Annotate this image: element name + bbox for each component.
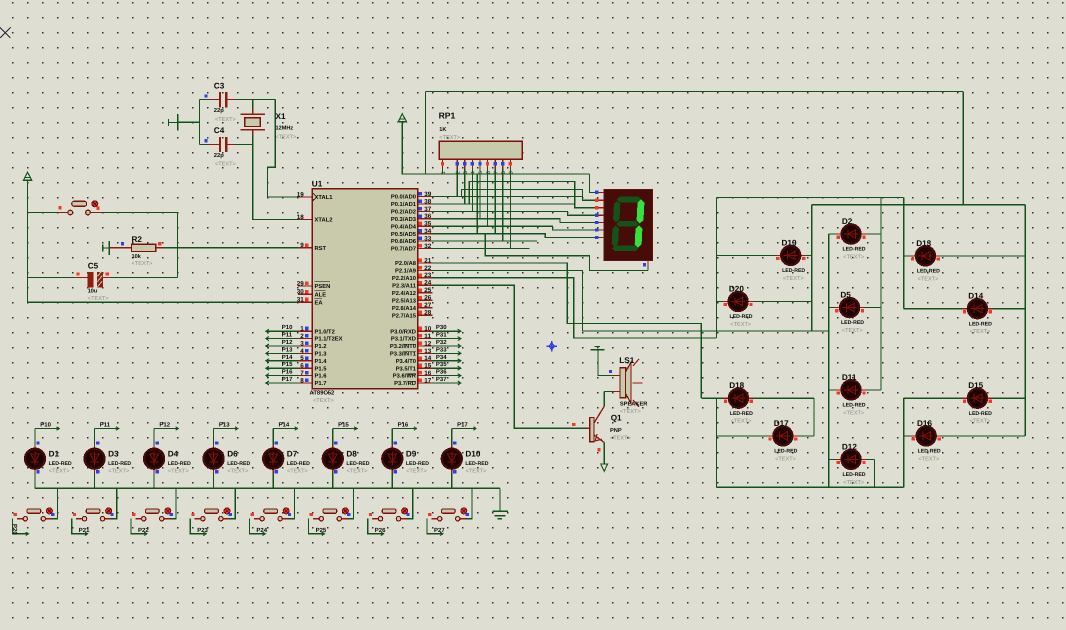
U1 left pins bbox=[298, 197, 312, 383]
wire net P15 bbox=[266, 367, 298, 369]
svg-text:LED-RED: LED-RED bbox=[843, 472, 866, 478]
wire net P12 stub bbox=[154, 428, 178, 430]
ground (crystal area) bbox=[168, 119, 170, 126]
wire D5 row bbox=[829, 307, 881, 309]
svg-text:8: 8 bbox=[300, 377, 304, 384]
wire matrix left rail upper bbox=[716, 198, 718, 339]
svg-text:<TEXT>: <TEXT> bbox=[168, 468, 189, 474]
capacitor C4 bbox=[208, 137, 237, 152]
wire RP1 pin4 drop bbox=[471, 169, 473, 212]
svg-text:3: 3 bbox=[300, 340, 304, 347]
wire net P11 bbox=[266, 338, 298, 340]
svg-text:16: 16 bbox=[424, 370, 432, 377]
svg-text:33: 33 bbox=[424, 236, 432, 243]
wire D2 row bbox=[829, 233, 881, 235]
wire D15 row bbox=[904, 397, 1025, 399]
svg-text:P2.0/A8: P2.0/A8 bbox=[395, 260, 417, 267]
svg-text:P27: P27 bbox=[434, 527, 445, 534]
wire P0.4 to segment F bbox=[433, 226, 599, 230]
svg-text:P3.4/T0: P3.4/T0 bbox=[396, 358, 416, 365]
wire net P13 stub bbox=[214, 428, 238, 430]
wire D18 row bbox=[701, 397, 814, 399]
wire D12 row bbox=[829, 458, 875, 460]
svg-text:D13: D13 bbox=[916, 239, 931, 248]
svg-text:<TEXT>: <TEXT> bbox=[775, 456, 796, 462]
wire D13 row bbox=[904, 255, 1025, 257]
svg-text:AT89C52: AT89C52 bbox=[310, 390, 335, 397]
LED D12 bbox=[836, 450, 866, 469]
svg-text:XTAL2: XTAL2 bbox=[315, 217, 333, 224]
svg-text:37: 37 bbox=[424, 206, 432, 213]
wire button P27 to net bbox=[427, 519, 443, 534]
wire D1 bottom bbox=[34, 473, 36, 488]
wire button P24 to net bbox=[249, 519, 265, 534]
wire VCC to reset button bbox=[28, 212, 58, 214]
LED D18 bbox=[723, 389, 753, 408]
svg-text:D18: D18 bbox=[729, 381, 744, 390]
push button P24 bbox=[254, 508, 289, 521]
svg-text:D7: D7 bbox=[287, 450, 298, 459]
wire button P23 to net bbox=[190, 519, 206, 534]
wire top VCC rail bbox=[426, 91, 964, 93]
LED D2 bbox=[836, 225, 866, 244]
7seg pins bbox=[599, 192, 648, 266]
svg-text:36: 36 bbox=[424, 213, 432, 220]
wire D11 row bbox=[829, 389, 881, 391]
svg-text:C4: C4 bbox=[214, 126, 225, 135]
LED D19 bbox=[776, 246, 806, 265]
wire D16 row bbox=[904, 435, 1025, 437]
wire matrix right rail bbox=[1024, 205, 1026, 436]
wire to ground bbox=[499, 488, 501, 511]
wire D3 top bbox=[94, 429, 96, 445]
svg-text:D8: D8 bbox=[346, 450, 357, 459]
svg-text:P0.3/AD3: P0.3/AD3 bbox=[391, 216, 417, 223]
svg-text:P2.1/A9: P2.1/A9 bbox=[395, 268, 417, 275]
wire net P37 bbox=[433, 382, 461, 384]
svg-text:P10: P10 bbox=[282, 324, 293, 331]
svg-text:P3.5/T1: P3.5/T1 bbox=[396, 365, 417, 372]
svg-text:P17: P17 bbox=[282, 376, 293, 383]
svg-text:D11: D11 bbox=[842, 373, 857, 382]
wire VCC riser to top rail bbox=[425, 92, 427, 174]
svg-text:14: 14 bbox=[424, 355, 432, 362]
svg-text:<TEXT>: <TEXT> bbox=[918, 456, 939, 462]
svg-text:1: 1 bbox=[300, 326, 304, 333]
LED D8 bbox=[323, 445, 343, 474]
svg-text:D10: D10 bbox=[465, 450, 480, 459]
svg-text:12MHz: 12MHz bbox=[276, 126, 294, 132]
sheet origin marker bbox=[0, 28, 11, 39]
wire net P34 bbox=[433, 360, 461, 362]
wire VCC rail to 7seg bbox=[402, 121, 589, 174]
op-amp U1 body (AT89C52 microcontroller) bbox=[312, 189, 417, 389]
wire P0.6 row bbox=[433, 240, 537, 242]
svg-text:25: 25 bbox=[424, 287, 432, 294]
svg-text:D16: D16 bbox=[917, 419, 932, 428]
wire D4 bottom bbox=[153, 473, 155, 488]
wire D20 row bbox=[717, 301, 812, 303]
wire C3 to XTAL1 net bbox=[236, 99, 275, 101]
svg-text:<TEXT>: <TEXT> bbox=[215, 117, 236, 123]
svg-text:<TEXT>: <TEXT> bbox=[620, 409, 641, 415]
svg-text:5: 5 bbox=[300, 355, 304, 362]
svg-text:22: 22 bbox=[424, 265, 432, 272]
wire button P26 to net bbox=[368, 519, 384, 534]
svg-text:D20: D20 bbox=[729, 285, 744, 294]
svg-text:P1.6: P1.6 bbox=[315, 373, 328, 380]
svg-text:31: 31 bbox=[297, 297, 305, 304]
wire speaker bottom bbox=[604, 391, 612, 393]
LED D13 bbox=[910, 246, 940, 265]
wire net P33 bbox=[433, 352, 461, 354]
wire matrix top rail bbox=[717, 197, 904, 199]
wire D6 bottom bbox=[213, 473, 215, 488]
svg-text:21: 21 bbox=[424, 257, 432, 264]
wire matrix right-mid riser bbox=[903, 198, 905, 309]
svg-text:LED-RED: LED-RED bbox=[774, 449, 797, 455]
svg-text:D15: D15 bbox=[968, 381, 983, 390]
wire button P22 to net bbox=[131, 519, 147, 534]
svg-text:23: 23 bbox=[424, 272, 432, 279]
svg-text:P1.4: P1.4 bbox=[315, 359, 328, 365]
svg-text:P36: P36 bbox=[436, 369, 447, 376]
svg-text:P1.1/T2EX: P1.1/T2EX bbox=[315, 336, 343, 343]
svg-text:P0.1/AD1: P0.1/AD1 bbox=[391, 201, 417, 208]
svg-text:P30: P30 bbox=[436, 324, 447, 331]
svg-text:P2.2/A10: P2.2/A10 bbox=[392, 275, 416, 282]
wire D9 top bbox=[391, 429, 393, 445]
svg-text:C5: C5 bbox=[88, 261, 99, 270]
svg-text:R2: R2 bbox=[132, 235, 143, 244]
push button P26 bbox=[372, 508, 407, 521]
svg-text:P3.1/TXD: P3.1/TXD bbox=[391, 336, 416, 343]
svg-text:P14: P14 bbox=[279, 421, 290, 428]
svg-text:13: 13 bbox=[424, 348, 432, 355]
svg-text:<TEXT>: <TEXT> bbox=[132, 261, 153, 267]
wire P0.0 row bbox=[433, 196, 583, 198]
svg-text:<TEXT>: <TEXT> bbox=[406, 468, 427, 474]
svg-text:P22: P22 bbox=[138, 527, 149, 534]
svg-text:LED-RED: LED-RED bbox=[841, 320, 864, 326]
svg-text:<TEXT>: <TEXT> bbox=[970, 329, 991, 335]
resistor pack RP1 bbox=[439, 141, 522, 159]
svg-text:P32: P32 bbox=[436, 339, 447, 346]
svg-text:LED-RED: LED-RED bbox=[969, 411, 992, 417]
wire net P17 bbox=[266, 382, 298, 384]
svg-text:<TEXT>: <TEXT> bbox=[227, 468, 248, 474]
wire crystal bottom stub bbox=[252, 136, 254, 145]
svg-text:<TEXT>: <TEXT> bbox=[313, 398, 334, 404]
svg-text:LED-RED: LED-RED bbox=[969, 321, 992, 327]
svg-text:XTAL1: XTAL1 bbox=[315, 195, 334, 201]
wire mid-col right rail bbox=[880, 198, 882, 390]
svg-text:LED-RED: LED-RED bbox=[168, 461, 191, 467]
svg-text:C3: C3 bbox=[214, 81, 225, 90]
wire matrix left rail lower bbox=[716, 398, 718, 487]
svg-text:<TEXT>: <TEXT> bbox=[439, 135, 460, 141]
svg-text:28: 28 bbox=[424, 310, 432, 317]
wire RP1 pin3 drop bbox=[464, 169, 466, 204]
push button (reset) bbox=[58, 201, 100, 215]
svg-text:P16: P16 bbox=[398, 421, 409, 428]
svg-text:P21: P21 bbox=[79, 527, 90, 534]
wire D1 top bbox=[34, 429, 36, 445]
wire XTAL1 bbox=[268, 100, 298, 197]
svg-text:P17: P17 bbox=[457, 421, 468, 428]
svg-text:PNP: PNP bbox=[610, 428, 622, 434]
svg-text:P15: P15 bbox=[282, 361, 293, 368]
wire P2.0 to D18 row bbox=[433, 263, 702, 398]
svg-text:P15: P15 bbox=[338, 421, 349, 428]
wire RP1 pin2 drop bbox=[456, 169, 458, 197]
LED D9 bbox=[382, 445, 402, 474]
wire C5 to RST node bbox=[112, 277, 178, 279]
svg-text:29: 29 bbox=[297, 280, 305, 287]
wire VCC rail to C5 bbox=[28, 277, 75, 279]
wire net P11 stub bbox=[95, 428, 119, 430]
svg-text:D5: D5 bbox=[840, 291, 851, 300]
svg-text:P1.2: P1.2 bbox=[315, 343, 327, 350]
wire D8 top bbox=[332, 429, 334, 445]
wire P0.0 to segment B bbox=[462, 190, 599, 201]
svg-text:LED-RED: LED-RED bbox=[465, 461, 488, 467]
wire matrix bottom rail bbox=[717, 486, 904, 488]
wire net P14 stub bbox=[273, 428, 297, 430]
svg-text:D19: D19 bbox=[782, 238, 797, 247]
svg-text:<TEXT>: <TEXT> bbox=[783, 276, 804, 282]
wire VCC drop right bbox=[962, 92, 964, 205]
svg-text:<TEXT>: <TEXT> bbox=[215, 162, 236, 168]
wire colB rail upper bbox=[811, 205, 813, 331]
wire RP1 pin8 drop bbox=[502, 169, 504, 241]
svg-text:6: 6 bbox=[300, 363, 304, 370]
wire P0.7 row bbox=[433, 248, 530, 250]
svg-text:P3.0/RXD: P3.0/RXD bbox=[390, 328, 416, 335]
wire RP1 pin5 drop bbox=[479, 169, 481, 219]
wire to C3 left bbox=[200, 99, 208, 101]
wire P0.1 row bbox=[433, 203, 575, 205]
svg-text:PSEN: PSEN bbox=[315, 283, 331, 290]
svg-text:P25: P25 bbox=[316, 527, 327, 534]
svg-text:LED-RED: LED-RED bbox=[346, 461, 369, 467]
wire matrix upper-right rail bbox=[812, 204, 1025, 206]
svg-text:1K: 1K bbox=[439, 127, 446, 133]
wire P2.1 to matrix mid rail bbox=[433, 270, 829, 331]
ground (speaker) bbox=[595, 346, 601, 348]
RP1 pins bbox=[443, 159, 511, 169]
wire button P24 to rail bbox=[288, 488, 294, 518]
svg-text:7: 7 bbox=[300, 370, 304, 377]
wire VCC rail to EA bbox=[28, 179, 298, 302]
svg-text:Q1: Q1 bbox=[611, 413, 622, 422]
svg-text:P2.5/A13: P2.5/A13 bbox=[392, 297, 417, 304]
svg-text:U1: U1 bbox=[312, 180, 323, 189]
svg-text:<TEXT>: <TEXT> bbox=[347, 468, 368, 474]
wire ground to crystal-left rail bbox=[178, 121, 200, 123]
wire P0.3 to segment E bbox=[433, 219, 599, 223]
svg-text:P0.7/AD7: P0.7/AD7 bbox=[391, 246, 416, 253]
svg-text:P2.6/A14: P2.6/A14 bbox=[392, 305, 417, 312]
svg-text:X1: X1 bbox=[276, 112, 286, 121]
svg-text:LED-RED: LED-RED bbox=[843, 247, 866, 253]
wire P0.5 to segment G bbox=[433, 234, 599, 238]
svg-text:<TEXT>: <TEXT> bbox=[276, 134, 297, 140]
svg-text:RST: RST bbox=[315, 245, 327, 252]
LED D16 bbox=[911, 426, 941, 445]
wire VCC to 7seg pin1 bbox=[590, 174, 599, 192]
svg-text:9: 9 bbox=[300, 242, 304, 249]
wire Q1 emitter down bbox=[603, 443, 605, 464]
wire colB rail lower bbox=[813, 398, 815, 436]
wire D9 bottom bbox=[391, 473, 393, 488]
svg-text:22p: 22p bbox=[214, 152, 224, 159]
svg-text:<TEXT>: <TEXT> bbox=[970, 419, 991, 425]
svg-text:<TEXT>: <TEXT> bbox=[843, 480, 864, 486]
wire D14 row bbox=[904, 308, 1025, 310]
wire D10 bottom bbox=[451, 473, 453, 488]
svg-text:<TEXT>: <TEXT> bbox=[842, 328, 863, 334]
svg-text:19: 19 bbox=[297, 191, 305, 198]
svg-text:P0.6/AD6: P0.6/AD6 bbox=[391, 238, 417, 245]
wire mid-col left rail bbox=[828, 234, 830, 487]
wire net P32 bbox=[433, 345, 461, 347]
svg-text:D4: D4 bbox=[168, 450, 179, 459]
wire RP1 pin1 to VCC bbox=[442, 169, 444, 174]
svg-text:LED-RED: LED-RED bbox=[843, 403, 866, 409]
svg-text:P1.3: P1.3 bbox=[315, 351, 328, 358]
push button P27 bbox=[431, 508, 466, 521]
svg-text:P2.7/A15: P2.7/A15 bbox=[392, 312, 417, 319]
svg-text:P33: P33 bbox=[436, 346, 447, 353]
svg-text:27: 27 bbox=[424, 302, 432, 309]
svg-text:15: 15 bbox=[424, 363, 432, 370]
wire button P21 to rail bbox=[111, 488, 117, 518]
crystal X1 bbox=[241, 109, 265, 136]
svg-text:LED-RED: LED-RED bbox=[227, 461, 250, 467]
svg-text:P11: P11 bbox=[100, 421, 111, 428]
LED D14 bbox=[962, 299, 992, 318]
svg-text:P1.0/T2: P1.0/T2 bbox=[315, 328, 335, 335]
wire D12 drop bbox=[873, 459, 875, 487]
wire right riser lower bbox=[903, 398, 905, 487]
wire D8 bottom bbox=[332, 473, 334, 488]
svg-text:P2.3/A11: P2.3/A11 bbox=[392, 282, 417, 289]
svg-text:10k: 10k bbox=[132, 253, 142, 260]
wire C4 to XTAL2 net bbox=[236, 143, 253, 145]
svg-text:D14: D14 bbox=[968, 292, 983, 301]
wire P2.2 to matrix left rail bbox=[433, 278, 717, 338]
svg-text:10: 10 bbox=[424, 326, 432, 333]
ground (R2) bbox=[102, 245, 104, 252]
svg-text:P10: P10 bbox=[40, 421, 51, 428]
svg-text:<TEXT>: <TEXT> bbox=[88, 296, 109, 302]
svg-text:D2: D2 bbox=[842, 217, 853, 226]
power symbol VCC (left) bbox=[23, 172, 31, 180]
push button P23 bbox=[195, 508, 230, 521]
svg-text:<TEXT>: <TEXT> bbox=[918, 276, 939, 282]
wire ground to speaker bbox=[598, 350, 612, 376]
wire XTAL2 bbox=[253, 144, 298, 219]
svg-text:17: 17 bbox=[424, 377, 432, 384]
svg-text:<TEXT>: <TEXT> bbox=[730, 322, 751, 328]
svg-text:D6: D6 bbox=[227, 450, 238, 459]
wire D7 bottom bbox=[272, 473, 274, 488]
speaker LS1 bbox=[612, 359, 642, 407]
svg-text:18: 18 bbox=[297, 214, 305, 221]
svg-text:LED-RED: LED-RED bbox=[108, 461, 131, 467]
wire D4 top bbox=[153, 429, 155, 445]
svg-text:D9: D9 bbox=[406, 450, 417, 459]
wire to C4 left bbox=[200, 143, 208, 145]
svg-text:P13: P13 bbox=[219, 421, 230, 428]
svg-text:<TEXT>: <TEXT> bbox=[843, 255, 864, 261]
svg-text:LED-RED: LED-RED bbox=[730, 411, 753, 417]
svg-text:P1.5: P1.5 bbox=[315, 366, 328, 372]
wire bottom LED rail bbox=[35, 487, 500, 489]
LED D15 bbox=[962, 389, 992, 408]
wire net P35 bbox=[433, 367, 461, 369]
svg-text:D12: D12 bbox=[842, 442, 857, 451]
push button P22 bbox=[135, 508, 170, 521]
LED D3 bbox=[85, 445, 105, 474]
wire RP1 pin9 drop bbox=[509, 169, 511, 249]
svg-text:P16: P16 bbox=[282, 369, 293, 376]
svg-text:P20: P20 bbox=[11, 524, 18, 535]
svg-text:30: 30 bbox=[297, 289, 305, 296]
U1 right pins bbox=[419, 197, 433, 384]
svg-text:RP1: RP1 bbox=[439, 111, 456, 121]
wire button P25 to net bbox=[309, 519, 325, 534]
wire P0.1 to segment C bbox=[469, 182, 598, 208]
svg-text:LED-RED: LED-RED bbox=[287, 461, 310, 467]
wire D6 top bbox=[213, 429, 215, 445]
svg-text:D17: D17 bbox=[774, 419, 789, 428]
wire 7seg common return bbox=[477, 174, 648, 270]
wire button P23 to rail bbox=[229, 488, 235, 518]
svg-text:<TEXT>: <TEXT> bbox=[49, 468, 70, 474]
wire button P25 to rail bbox=[348, 488, 354, 518]
wire RP1 pin6 drop bbox=[487, 169, 489, 226]
svg-text:<TEXT>: <TEXT> bbox=[108, 468, 129, 474]
wire D3 bottom bbox=[94, 473, 96, 488]
svg-text:10u: 10u bbox=[88, 289, 98, 295]
transistor Q1 (PNP) bbox=[586, 406, 604, 442]
svg-text:P11: P11 bbox=[282, 332, 293, 339]
wire button P20 to rail bbox=[52, 488, 58, 518]
svg-text:P24: P24 bbox=[256, 527, 267, 534]
svg-text:P35: P35 bbox=[436, 361, 447, 368]
wire net P31 bbox=[433, 338, 461, 340]
svg-text:P37: P37 bbox=[436, 376, 447, 383]
wire net P30 bbox=[433, 330, 461, 332]
LED D1 bbox=[25, 445, 45, 474]
capacitor C5 (polarized) bbox=[75, 271, 112, 287]
LED D7 bbox=[263, 445, 283, 474]
wire 7seg common stub bbox=[647, 266, 649, 270]
wire D17 row bbox=[717, 435, 814, 437]
svg-text:ALE: ALE bbox=[315, 292, 327, 298]
svg-text:24: 24 bbox=[424, 280, 432, 287]
wire RP1 pin7 drop bbox=[494, 169, 496, 234]
wire D7 top bbox=[272, 429, 274, 445]
svg-text:P34: P34 bbox=[436, 354, 447, 361]
svg-text:<TEXT>: <TEXT> bbox=[287, 468, 308, 474]
svg-text:EA: EA bbox=[315, 300, 324, 306]
wire crystal left vertical bbox=[199, 100, 201, 145]
svg-text:LED-RED: LED-RED bbox=[730, 314, 753, 320]
LED D4 bbox=[144, 445, 164, 474]
